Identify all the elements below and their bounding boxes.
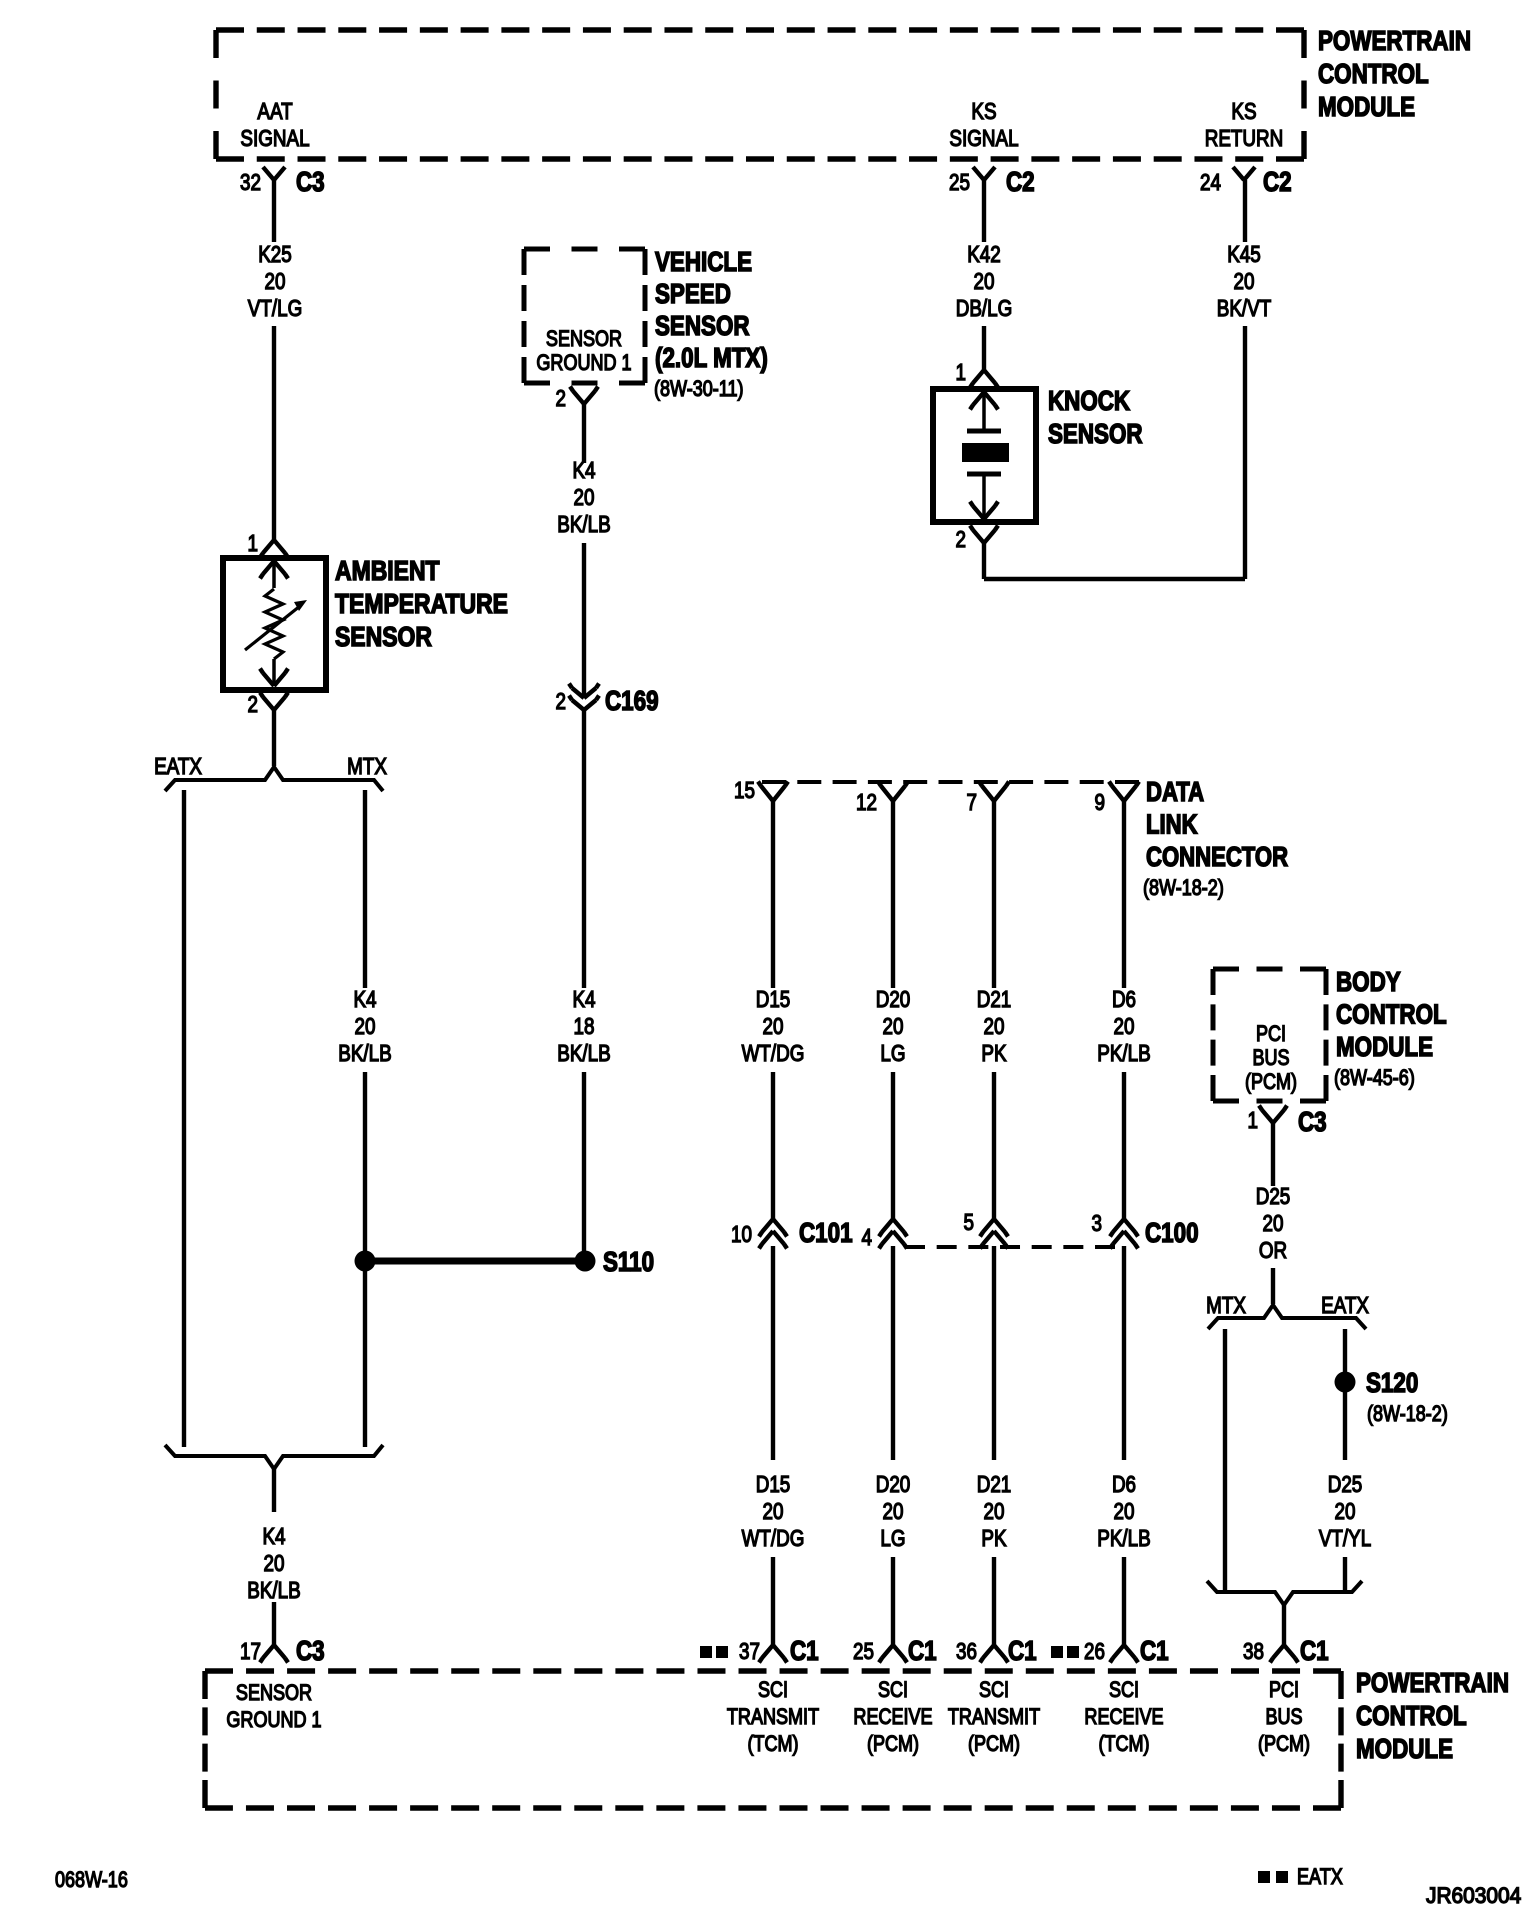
wire D20 upper [891, 801, 895, 988]
ambient temperature sensor box [223, 558, 326, 690]
wire D20 lower [891, 1246, 895, 1460]
svg-text:C1: C1 [790, 1636, 819, 1667]
connector C2 pin 25 [973, 167, 995, 180]
svg-text:CONTROL: CONTROL [1336, 999, 1447, 1030]
svg-text:TEMPERATURE: TEMPERATURE [335, 589, 508, 620]
svg-text:MODULE: MODULE [1356, 1734, 1453, 1765]
svg-text:MTX: MTX [1206, 1293, 1246, 1318]
svg-text:LG: LG [880, 1041, 905, 1066]
wire D15 lower [771, 1246, 775, 1460]
knock sensor pin 1 [970, 370, 998, 388]
svg-text:10: 10 [731, 1222, 752, 1247]
data link connector dashed bus line [762, 780, 1139, 784]
connector C3 pin 17 [260, 1645, 288, 1663]
svg-text:LINK: LINK [1146, 809, 1198, 840]
wire PCI BUS to PCM pin 38 [1282, 1605, 1286, 1645]
wire D21 upper [992, 801, 996, 988]
svg-text:068W-16: 068W-16 [55, 1868, 128, 1892]
svg-text:2: 2 [556, 386, 566, 411]
svg-text:K25: K25 [258, 242, 292, 267]
svg-text:WT/DG: WT/DG [742, 1526, 805, 1551]
svg-text:PCI: PCI [1256, 1022, 1286, 1046]
wire KS return path from knock sensor [982, 543, 986, 579]
wire MTX branch (right) [1223, 1329, 1227, 1592]
svg-text:BK/LB: BK/LB [247, 1578, 300, 1603]
wire K4 mid [582, 543, 586, 696]
MTX/EATX split brace (right) [1208, 1305, 1366, 1329]
svg-text:DB/LG: DB/LG [956, 296, 1013, 321]
svg-text:20: 20 [763, 1014, 784, 1039]
svg-text:K4: K4 [572, 987, 595, 1012]
svg-text:K4: K4 [262, 1524, 285, 1549]
svg-text:BODY: BODY [1336, 967, 1401, 998]
svg-text:KS: KS [1231, 99, 1256, 124]
connector C101 pin 10 [759, 1219, 787, 1237]
svg-text:1: 1 [248, 531, 258, 556]
svg-text:25: 25 [949, 170, 970, 195]
svg-text:CONTROL: CONTROL [1356, 1701, 1467, 1732]
wire D21 lower [992, 1246, 996, 1460]
wire D6 lower [1122, 1246, 1126, 1460]
svg-text:K4: K4 [353, 987, 376, 1012]
svg-text:36: 36 [956, 1639, 977, 1664]
wire D15 mid [771, 1072, 775, 1219]
connector C100 pin 5 [980, 1219, 1008, 1237]
svg-text:MODULE: MODULE [1336, 1032, 1433, 1063]
svg-text:PK/LB: PK/LB [1097, 1526, 1150, 1551]
svg-text:C3: C3 [296, 1636, 325, 1667]
svg-text:SCI: SCI [758, 1678, 788, 1702]
svg-text:(2.0L MTX): (2.0L MTX) [655, 343, 768, 374]
svg-text:20: 20 [974, 269, 995, 294]
splice S110 [355, 1251, 376, 1272]
knock sensor box [933, 389, 1036, 522]
svg-text:20: 20 [1234, 269, 1255, 294]
svg-text:OR: OR [1259, 1238, 1287, 1263]
svg-text:EATX: EATX [154, 754, 202, 779]
knock sensor pin 2 [970, 526, 998, 544]
svg-text:20: 20 [984, 1014, 1005, 1039]
svg-text:MODULE: MODULE [1318, 92, 1415, 123]
svg-text:20: 20 [1114, 1014, 1135, 1039]
svg-text:C1: C1 [1140, 1636, 1169, 1667]
thermistor symbol inside ambient temperature sensor [260, 561, 288, 579]
svg-text:17: 17 [240, 1639, 261, 1664]
DLC pin 15 [758, 782, 788, 802]
wire K25 lower [272, 326, 276, 540]
svg-text:KS: KS [971, 99, 996, 124]
svg-text:(PCM): (PCM) [867, 1732, 919, 1756]
svg-text:20: 20 [1263, 1211, 1284, 1236]
wire D6 mid [1122, 1072, 1126, 1219]
connector C1 pin 25 [879, 1645, 907, 1663]
svg-text:25: 25 [853, 1639, 874, 1664]
connector C100 pin 3 [1110, 1219, 1138, 1237]
svg-text:MTX: MTX [347, 754, 387, 779]
svg-text:WT/DG: WT/DG [742, 1041, 805, 1066]
svg-text:K4: K4 [572, 458, 595, 483]
piezo element inside knock sensor [970, 392, 998, 410]
EATX/MTX split brace [165, 767, 383, 791]
MTX/EATX merge brace (right) [1207, 1581, 1362, 1605]
svg-text:20: 20 [265, 269, 286, 294]
connector C101 pin 4 [879, 1219, 907, 1237]
svg-text:PK: PK [981, 1041, 1006, 1066]
svg-text:(TCM): (TCM) [747, 1732, 798, 1756]
wire K25 upper [272, 180, 276, 242]
connector C1 pin 36 [980, 1645, 1008, 1663]
svg-text:15: 15 [734, 778, 755, 803]
svg-text:SIGNAL: SIGNAL [949, 126, 1018, 151]
connector C1 pin 37 [759, 1645, 787, 1663]
svg-text:GROUND 1: GROUND 1 [226, 1708, 321, 1732]
ambient temperature sensor pin 1 [260, 540, 288, 558]
ambient temperature sensor pin 2 [260, 693, 288, 711]
dashed link between C101 and C100 [905, 1245, 1115, 1249]
svg-text:2: 2 [956, 527, 966, 552]
svg-text:C101: C101 [799, 1218, 853, 1249]
VSS pin 2 [570, 387, 598, 405]
wire MTX branch lower [363, 1072, 367, 1447]
connector C169 pin 2 [569, 684, 599, 699]
module box: POWERTRAIN CONTROL MODULE (top) [216, 27, 1304, 32]
wire D25 lower [1271, 1268, 1275, 1304]
svg-text:(8W-18-2): (8W-18-2) [1143, 876, 1224, 900]
svg-text:(8W-45-6): (8W-45-6) [1334, 1066, 1415, 1090]
connector C1 pin 38 [1270, 1645, 1298, 1663]
svg-text:24: 24 [1200, 170, 1221, 195]
svg-text:RETURN: RETURN [1205, 126, 1284, 151]
svg-text:D20: D20 [876, 1472, 911, 1497]
connector C1 pin 26 [1110, 1645, 1138, 1663]
svg-text:38: 38 [1243, 1639, 1264, 1664]
svg-text:20: 20 [355, 1014, 376, 1039]
svg-text:20: 20 [1114, 1499, 1135, 1524]
wire to PCM pin 17 [272, 1602, 276, 1645]
svg-text:20: 20 [984, 1499, 1005, 1524]
svg-text:SENSOR: SENSOR [335, 622, 432, 653]
svg-text:20: 20 [1335, 1499, 1356, 1524]
svg-text:PK: PK [981, 1526, 1006, 1551]
svg-text:TRANSMIT: TRANSMIT [727, 1705, 819, 1729]
svg-text:SENSOR: SENSOR [655, 311, 750, 342]
svg-text:9: 9 [1095, 790, 1105, 815]
svg-text:BK/LB: BK/LB [557, 512, 610, 537]
svg-text:37: 37 [739, 1639, 760, 1664]
wire MTX branch upper [363, 790, 367, 988]
svg-text:BK/LB: BK/LB [557, 1041, 610, 1066]
svg-text:4: 4 [862, 1225, 873, 1250]
splice S120 [1335, 1372, 1356, 1393]
svg-text:5: 5 [964, 1210, 974, 1235]
connector C3 pin 32 [263, 167, 285, 180]
wire from AAT sensor pin 2 [272, 710, 276, 766]
svg-text:BUS: BUS [1265, 1705, 1302, 1729]
svg-text:20: 20 [574, 485, 595, 510]
wire K42 lower [982, 326, 986, 370]
svg-text:SENSOR: SENSOR [236, 1681, 312, 1705]
svg-text:20: 20 [763, 1499, 784, 1524]
svg-text:SCI: SCI [878, 1678, 908, 1702]
svg-text:C3: C3 [296, 167, 325, 198]
wire D20 mid [891, 1072, 895, 1219]
svg-text:(TCM): (TCM) [1098, 1732, 1149, 1756]
svg-text:POWERTRAIN: POWERTRAIN [1356, 1668, 1509, 1699]
svg-text:JR603004: JR603004 [1426, 1884, 1521, 1909]
EATX/MTX merge brace [165, 1445, 383, 1469]
svg-text:D15: D15 [756, 1472, 791, 1497]
wire EATX branch lower (right) [1343, 1557, 1347, 1592]
svg-text:D25: D25 [1328, 1472, 1363, 1497]
wire K4 below C169 [582, 710, 586, 988]
svg-text:2: 2 [556, 689, 566, 714]
svg-text:D6: D6 [1112, 1472, 1136, 1497]
svg-text:C3: C3 [1298, 1107, 1327, 1138]
svg-text:GROUND 1: GROUND 1 [536, 351, 631, 375]
wire D15 upper [771, 801, 775, 988]
svg-text:PCI: PCI [1269, 1678, 1299, 1702]
svg-text:VT/LG: VT/LG [248, 296, 302, 321]
module box: VEHICLE SPEED SENSOR [524, 247, 645, 252]
svg-text:SPEED: SPEED [655, 279, 731, 310]
svg-text:(PCM): (PCM) [1258, 1732, 1310, 1756]
svg-text:(PCM): (PCM) [968, 1732, 1020, 1756]
svg-text:K45: K45 [1227, 242, 1261, 267]
svg-text:BK/LB: BK/LB [338, 1041, 391, 1066]
wire K45 upper [1243, 180, 1247, 242]
svg-text:3: 3 [1092, 1211, 1102, 1236]
svg-text:VT/YL: VT/YL [1319, 1526, 1371, 1551]
svg-text:20: 20 [264, 1551, 285, 1576]
svg-text:AMBIENT: AMBIENT [335, 556, 440, 587]
connector C3 pin 1 (BCM) [1259, 1106, 1287, 1124]
svg-text:SENSOR: SENSOR [546, 327, 622, 351]
svg-text:SENSOR: SENSOR [1048, 419, 1143, 450]
svg-text:C169: C169 [605, 686, 659, 717]
wire D6 upper [1122, 801, 1126, 988]
module box: POWERTRAIN CONTROL MODULE (bottom) [205, 1668, 1341, 1673]
wire EATX branch [182, 790, 186, 1447]
wire K4 upper [582, 404, 586, 463]
svg-text:C1: C1 [908, 1636, 937, 1667]
module box: BODY CONTROL MODULE [1213, 967, 1326, 972]
svg-text:TRANSMIT: TRANSMIT [948, 1705, 1040, 1729]
svg-text:20: 20 [883, 1014, 904, 1039]
svg-text:SCI: SCI [1109, 1678, 1139, 1702]
svg-text:CONTROL: CONTROL [1318, 59, 1429, 90]
svg-text:32: 32 [240, 170, 261, 195]
svg-text:BUS: BUS [1252, 1046, 1289, 1070]
svg-text:S110: S110 [603, 1247, 654, 1278]
svg-text:D15: D15 [756, 987, 791, 1012]
svg-text:PK/LB: PK/LB [1097, 1041, 1150, 1066]
svg-text:SCI: SCI [979, 1678, 1009, 1702]
svg-text:D21: D21 [977, 1472, 1012, 1497]
thermistor arrow [245, 606, 300, 650]
wire K42 upper [982, 180, 986, 242]
svg-text:D20: D20 [876, 987, 911, 1012]
svg-text:S120: S120 [1366, 1368, 1418, 1399]
svg-text:RECEIVE: RECEIVE [853, 1705, 932, 1729]
svg-text:(PCM): (PCM) [1245, 1070, 1297, 1094]
svg-text:(8W-18-2): (8W-18-2) [1367, 1402, 1448, 1426]
DLC pin 7 [979, 782, 1009, 802]
svg-text:LG: LG [880, 1526, 905, 1551]
svg-text:EATX: EATX [1297, 1865, 1343, 1889]
svg-text:1: 1 [956, 360, 966, 385]
svg-text:2: 2 [248, 692, 258, 717]
wire below merge [272, 1469, 276, 1512]
svg-text:EATX: EATX [1321, 1293, 1369, 1318]
svg-text:1: 1 [1248, 1108, 1258, 1133]
svg-text:26: 26 [1084, 1639, 1105, 1664]
svg-text:18: 18 [574, 1014, 595, 1039]
svg-text:C1: C1 [1008, 1636, 1037, 1667]
svg-text:DATA: DATA [1146, 777, 1204, 808]
svg-text:C100: C100 [1145, 1218, 1199, 1249]
svg-text:AAT: AAT [257, 99, 292, 124]
svg-text:12: 12 [856, 790, 877, 815]
wire D21 mid [992, 1072, 996, 1219]
connector C2 pin 24 [1233, 167, 1255, 180]
svg-text:7: 7 [967, 790, 977, 815]
wire K4 to S110 [582, 1072, 586, 1261]
wire D21 to PCM [992, 1557, 996, 1645]
svg-text:VEHICLE: VEHICLE [655, 247, 752, 278]
svg-text:BK/VT: BK/VT [1217, 296, 1272, 321]
svg-text:RECEIVE: RECEIVE [1084, 1705, 1163, 1729]
svg-text:(8W-30-11): (8W-30-11) [654, 377, 744, 401]
svg-text:20: 20 [883, 1499, 904, 1524]
svg-text:C2: C2 [1263, 167, 1292, 198]
wire EATX branch to S120 [1343, 1329, 1347, 1460]
svg-text:POWERTRAIN: POWERTRAIN [1318, 26, 1471, 57]
svg-text:SIGNAL: SIGNAL [240, 126, 309, 151]
wire D6 to PCM [1122, 1557, 1126, 1645]
svg-text:C1: C1 [1300, 1636, 1329, 1667]
svg-text:D6: D6 [1112, 987, 1136, 1012]
svg-text:D25: D25 [1256, 1184, 1291, 1209]
wire D25 upper [1271, 1123, 1275, 1186]
svg-text:C2: C2 [1006, 167, 1035, 198]
wire D20 to PCM [891, 1557, 895, 1645]
svg-text:KNOCK: KNOCK [1048, 386, 1131, 417]
svg-text:K42: K42 [967, 242, 1001, 267]
svg-text:CONNECTOR: CONNECTOR [1146, 842, 1288, 873]
DLC pin 9 [1109, 782, 1139, 802]
DLC pin 12 [878, 782, 908, 802]
svg-text:D21: D21 [977, 987, 1012, 1012]
wire D15 to PCM [771, 1557, 775, 1645]
legend EATX [1258, 1871, 1270, 1883]
